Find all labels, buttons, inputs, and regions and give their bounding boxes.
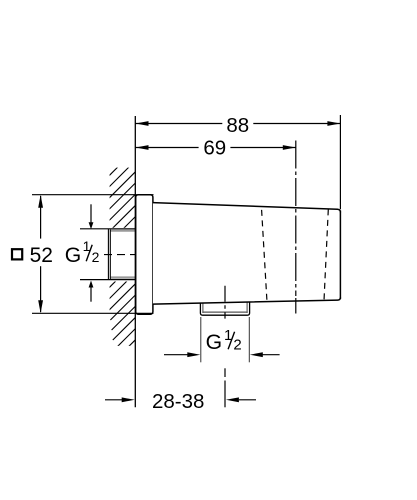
- svg-text:G: G: [65, 244, 81, 267]
- svg-text:2: 2: [92, 249, 100, 265]
- svg-text:69: 69: [203, 136, 226, 159]
- svg-text:52: 52: [30, 244, 53, 267]
- svg-text:2: 2: [233, 336, 241, 353]
- svg-text:G: G: [206, 331, 222, 354]
- svg-text:88: 88: [226, 114, 249, 137]
- svg-text:28-38: 28-38: [152, 390, 204, 413]
